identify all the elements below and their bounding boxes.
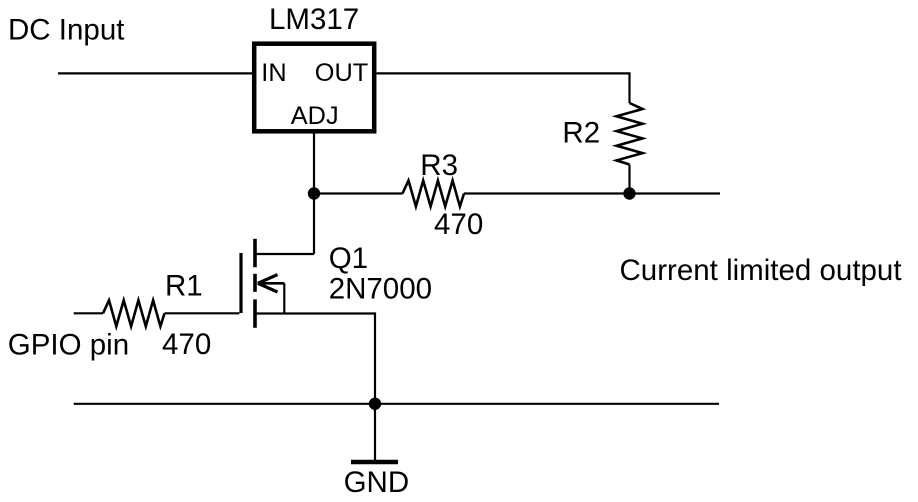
node ground junction dot	[369, 398, 381, 410]
transistor Q1 gate bar	[239, 253, 242, 313]
wire R3 to output node	[464, 192, 630, 194]
svg-text:R1: R1	[165, 270, 203, 303]
resistor R3	[403, 181, 465, 207]
wire LM317 OUT to R2 top corner	[377, 73, 630, 103]
wire R2 bottom lead	[628, 165, 630, 194]
ground symbol	[374, 404, 376, 461]
svg-text:2N7000: 2N7000	[329, 273, 432, 306]
svg-text:LM317: LM317	[269, 3, 359, 36]
svg-text:GND: GND	[344, 466, 410, 499]
wire ADJ vertical	[313, 131, 315, 254]
svg-text:R2: R2	[562, 117, 600, 150]
wire ground rail	[74, 403, 719, 405]
svg-text:DC Input: DC Input	[8, 14, 124, 47]
wire Q1 source to drop	[255, 314, 375, 404]
wire drain connection	[255, 253, 314, 255]
wire DC input to LM317 IN	[58, 72, 252, 74]
wire R1 to Q1 gate	[165, 312, 240, 314]
node output junction dot	[623, 187, 635, 199]
transistor Q1 channel dash 3	[253, 299, 257, 327]
resistor R2	[617, 103, 643, 165]
svg-text:IN: IN	[261, 59, 286, 87]
wire output node to right	[630, 192, 721, 194]
regulator U1 LM317 box	[254, 44, 374, 132]
svg-text:470: 470	[162, 328, 211, 361]
svg-text:GPIO pin: GPIO pin	[8, 329, 129, 362]
svg-text:470: 470	[434, 208, 483, 241]
svg-text:Q1: Q1	[329, 242, 368, 275]
svg-text:Current limited output: Current limited output	[620, 254, 902, 287]
transistor Q1 body arrow	[258, 275, 285, 292]
wire GPIO to R1	[74, 312, 103, 314]
node ADJ junction dot	[308, 187, 320, 199]
wire Q1 body to source	[283, 283, 285, 313]
svg-text:ADJ: ADJ	[291, 102, 339, 130]
wire ADJ node to R3	[314, 192, 403, 194]
svg-text:OUT: OUT	[315, 59, 368, 87]
transistor Q1 channel dash 2	[253, 274, 257, 292]
transistor Q1 channel dash 1	[253, 239, 257, 267]
svg-text:R3: R3	[420, 149, 458, 182]
resistor R1	[103, 300, 165, 326]
